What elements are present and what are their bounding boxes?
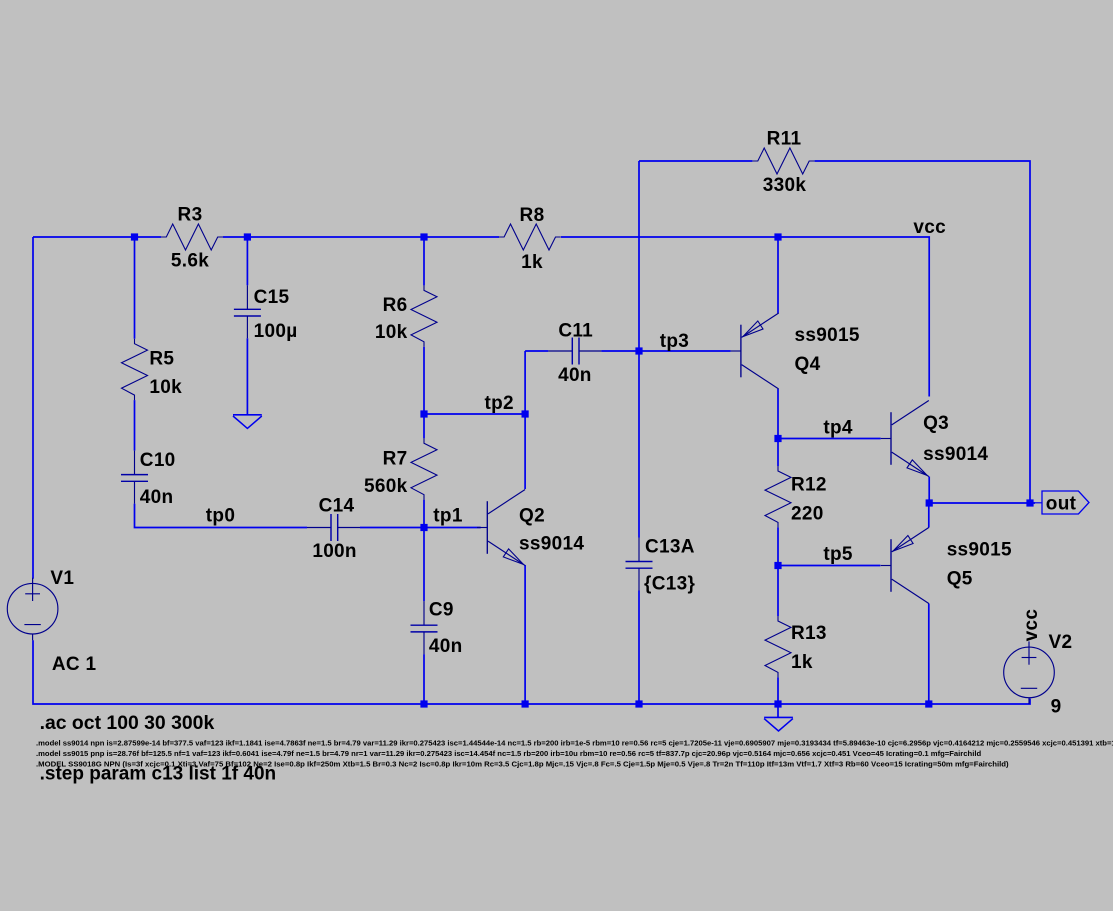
svg-text:tp1: tp1 <box>433 506 463 527</box>
svg-text:R13: R13 <box>791 623 827 644</box>
svg-text:.model ss9015 pnp is=28.76f bf: .model ss9015 pnp is=28.76f bf=125.5 nf=… <box>36 749 981 758</box>
svg-text:Q3: Q3 <box>923 413 949 434</box>
svg-text:tp0: tp0 <box>206 506 235 527</box>
svg-text:40n: 40n <box>429 636 463 657</box>
svg-text:ss9015: ss9015 <box>947 540 1012 561</box>
svg-text:C10: C10 <box>140 450 176 471</box>
svg-text:ss9014: ss9014 <box>519 534 584 555</box>
svg-text:ss9015: ss9015 <box>795 325 860 346</box>
svg-text:R7: R7 <box>383 448 408 469</box>
svg-text:10k: 10k <box>375 322 408 343</box>
svg-text:C13A: C13A <box>645 537 695 558</box>
svg-text:Q2: Q2 <box>519 505 545 526</box>
svg-text:{C13}: {C13} <box>644 574 695 595</box>
svg-text:10k: 10k <box>149 377 182 398</box>
svg-text:V2: V2 <box>1049 632 1073 653</box>
svg-text:R11: R11 <box>767 129 802 150</box>
svg-text:100µ: 100µ <box>254 321 298 342</box>
svg-text:V1: V1 <box>50 568 74 589</box>
svg-text:1k: 1k <box>521 252 543 273</box>
svg-text:C9: C9 <box>429 600 454 621</box>
svg-text:C11: C11 <box>558 320 593 341</box>
svg-text:40n: 40n <box>558 365 592 386</box>
svg-text:tp4: tp4 <box>823 418 853 439</box>
svg-text:Q5: Q5 <box>947 569 973 590</box>
svg-text:vcc: vcc <box>913 217 946 238</box>
svg-text:560k: 560k <box>364 476 408 497</box>
svg-text:R5: R5 <box>149 349 174 370</box>
svg-text:tp5: tp5 <box>823 544 853 565</box>
svg-text:.ac oct 100 30 300k: .ac oct 100 30 300k <box>40 712 215 734</box>
svg-text:9: 9 <box>1051 697 1062 718</box>
svg-text:tp3: tp3 <box>660 331 689 352</box>
svg-text:R12: R12 <box>791 475 827 496</box>
svg-text:C14: C14 <box>319 495 355 516</box>
svg-text:R8: R8 <box>520 205 545 226</box>
svg-text:220: 220 <box>791 504 824 525</box>
svg-text:ss9014: ss9014 <box>923 444 988 465</box>
svg-text:C15: C15 <box>254 287 290 308</box>
svg-text:AC 1: AC 1 <box>52 654 97 675</box>
svg-text:.model ss9014 npn is=2.87599e-: .model ss9014 npn is=2.87599e-14 bf=377.… <box>36 738 1113 747</box>
svg-text:Q4: Q4 <box>795 354 821 375</box>
svg-text:40n: 40n <box>140 487 174 508</box>
svg-text:R6: R6 <box>383 295 408 316</box>
svg-text:330k: 330k <box>763 175 807 196</box>
svg-text:R3: R3 <box>178 204 203 225</box>
svg-text:tp2: tp2 <box>485 393 514 414</box>
svg-text:vcc: vcc <box>1021 609 1042 642</box>
svg-text:100n: 100n <box>312 541 357 562</box>
svg-text:5.6k: 5.6k <box>171 251 209 272</box>
svg-text:.MODEL SS9018G NPN (Is=3f xcjc: .MODEL SS9018G NPN (Is=3f xcjc=0.1 Xti=3… <box>36 759 1009 768</box>
svg-text:1k: 1k <box>791 652 813 673</box>
svg-text:out: out <box>1046 494 1077 515</box>
